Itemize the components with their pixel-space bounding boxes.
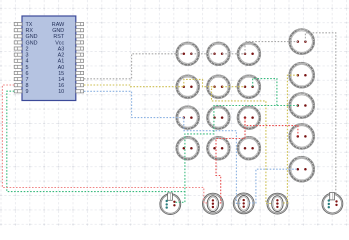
key switch SW17: [289, 156, 315, 182]
wire blue net: pin 10 to SW7: [84, 91, 184, 117]
wire yellow net: SW14 to RE4 right pin: [283, 75, 298, 203]
svg-text:GND: GND: [26, 40, 38, 46]
rotary encoder RE1 (shaft tab up): [160, 193, 181, 215]
svg-text:5: 5: [26, 65, 29, 71]
svg-text:A1: A1: [58, 59, 65, 65]
svg-text:6: 6: [26, 71, 29, 77]
wire green net: SW15 / SW8 / SW10 / RE1: [175, 106, 298, 203]
svg-text:7: 7: [26, 77, 29, 83]
svg-text:RAW: RAW: [52, 22, 65, 28]
svg-text:3: 3: [26, 53, 29, 59]
key switch SW13: [289, 29, 315, 55]
rotary encoder RE3 (rotated, oval body): [233, 193, 254, 214]
wire red net: SW9 / SW11 / RE2 right pin: [216, 118, 245, 203]
svg-text:RST: RST: [53, 34, 64, 40]
wire blue net: RE3 right pin to SW17: [249, 169, 298, 203]
key switch SW2: [207, 42, 231, 66]
wire gray net: SW13 to RE5: [305, 33, 335, 194]
key switch SW3: [237, 42, 261, 66]
svg-text:9: 9: [26, 89, 29, 95]
svg-text:GND: GND: [52, 28, 64, 34]
svg-text:4: 4: [26, 59, 29, 65]
svg-text:16: 16: [58, 83, 64, 89]
wire gray net: SW1 to SW2: [191, 53, 214, 55]
key switch SW16: [289, 123, 315, 149]
key switch SW9: [237, 106, 261, 130]
svg-text:A2: A2: [58, 53, 65, 59]
wire yellow net: pin 16 to SW4: [84, 85, 184, 87]
svg-text:RX: RX: [26, 28, 34, 34]
svg-text:2: 2: [26, 46, 29, 52]
svg-text:15: 15: [58, 71, 64, 77]
svg-text:A3: A3: [58, 46, 65, 52]
wire gray net: pin 14 to SW1: [84, 54, 184, 79]
key switch SW8: [207, 106, 231, 130]
wire blue net: SW7 to RE3 left pin: [184, 118, 241, 204]
key switch SW15: [289, 93, 315, 119]
key switch SW4: [176, 75, 200, 99]
wire red net: pin 8 bus to RE2 left pin: [2, 85, 207, 203]
svg-text:14: 14: [58, 77, 64, 83]
key switch SW10: [176, 136, 200, 160]
svg-text:Vcc: Vcc: [55, 40, 64, 46]
rotary encoder RE2 (rotated, oval body): [203, 193, 224, 214]
key switch SW5: [207, 75, 231, 99]
svg-text:TX: TX: [26, 22, 33, 28]
key switch SW7: [176, 106, 200, 130]
wire yellow net: SW5 to SW6: [222, 86, 245, 88]
wire gray net: SW2 to SW3: [222, 53, 245, 55]
wire gray net: SW3 to SW13: [245, 42, 298, 54]
wire yellow net: SW5 to RE4 left pin: [212, 87, 273, 204]
wire green net: pin 9 bus: [7, 91, 185, 191]
key switch SW6: [237, 75, 261, 99]
svg-text:8: 8: [26, 83, 29, 89]
key switch SW11: [207, 136, 231, 160]
key switch SW14: [289, 62, 315, 88]
rotary encoder RE5 (shaft tab up): [322, 193, 343, 215]
microcontroller U1 (Pro Micro): [14, 16, 83, 101]
key switch SW1: [176, 42, 200, 66]
svg-text:A0: A0: [58, 65, 65, 71]
wire yellow net: SW4 to SW5: [184, 79, 215, 86]
wire red net: SW9 to SW16: [245, 118, 298, 137]
svg-text:10: 10: [58, 89, 64, 95]
key switch SW12: [237, 136, 261, 160]
wire green net: SW6 branch: [253, 79, 277, 106]
svg-text:GND: GND: [26, 34, 38, 40]
rotary encoder RE4 (rotated, oval body): [267, 193, 288, 214]
